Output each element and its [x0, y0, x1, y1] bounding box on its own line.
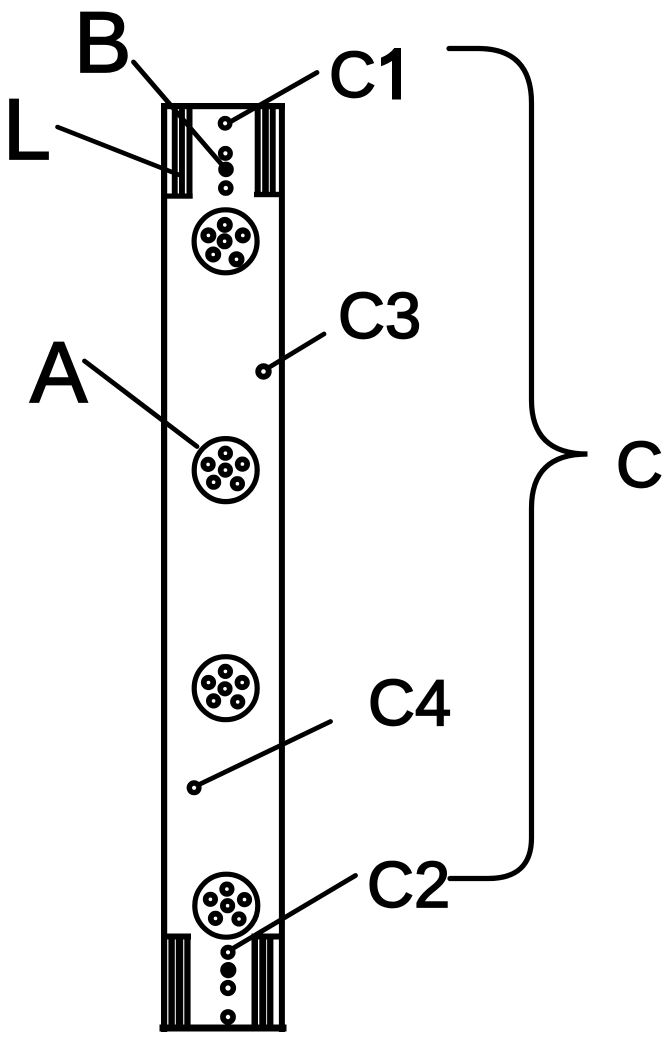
top chain filled dot (B endpoint)	[218, 162, 234, 178]
top chain ring 2	[218, 146, 233, 161]
column bottom edge	[160, 1025, 287, 1032]
svg-text:C3: C3	[338, 279, 421, 352]
column right edge	[279, 103, 285, 1032]
digit 1 of label C1	[382, 49, 401, 100]
svg-text:C: C	[329, 38, 376, 111]
column top edge	[161, 103, 285, 109]
bottom-left hatch band	[162, 934, 191, 1026]
cable cross-section circle 3	[194, 657, 257, 720]
bottom chain ring 3	[220, 1009, 236, 1025]
brace C	[449, 49, 588, 879]
top chain ring 1 (C1 endpoint)	[218, 116, 233, 131]
leader line B	[134, 62, 224, 166]
cable cross-section circle 2 (A endpoint)	[194, 439, 257, 502]
svg-text:A: A	[30, 325, 88, 421]
leader line A	[85, 361, 198, 447]
C4 endpoint ring	[187, 780, 202, 795]
cable cross-section circle 1	[194, 210, 257, 273]
leader line C3	[268, 334, 324, 368]
bottom-right hatch band	[252, 934, 282, 1026]
bottom chain ring 1 (C2 endpoint)	[220, 945, 235, 960]
svg-text:B: B	[74, 0, 131, 91]
bottom chain ring 2	[220, 980, 236, 996]
bottom chain filled dot	[220, 962, 236, 978]
leader line C1	[230, 73, 317, 123]
svg-text:L: L	[3, 82, 51, 178]
top chain ring 3	[218, 180, 234, 196]
svg-text:C2: C2	[367, 848, 450, 921]
top-right hatch band	[254, 107, 281, 197]
C3 endpoint ring	[255, 363, 271, 379]
column left edge	[161, 103, 167, 1032]
svg-text:C4: C4	[368, 666, 451, 739]
cable cross-section circle 4	[195, 874, 258, 937]
svg-text:C: C	[616, 428, 663, 501]
leader line L	[58, 127, 183, 176]
leader line C2	[231, 876, 356, 950]
leader line C4	[196, 722, 331, 787]
top-left hatch band	[162, 107, 193, 199]
